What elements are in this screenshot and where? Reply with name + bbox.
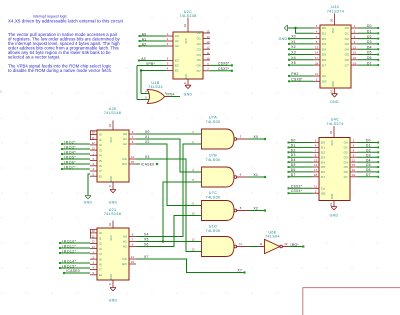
wire net X1 from U20 A1 to U7B pin 4 xyxy=(136,139,196,172)
decoder U2C right pin stubs xyxy=(203,32,210,34)
svg-text:14: 14 xyxy=(315,51,318,55)
svg-text:18: 18 xyxy=(314,173,317,177)
label X4 to U3C xyxy=(288,59,290,61)
svg-text:A1: A1 xyxy=(175,39,179,43)
svg-text:O4: O4 xyxy=(344,160,348,164)
svg-text:D7: D7 xyxy=(366,173,371,177)
sheet outline corner xyxy=(303,288,400,315)
label D7 to U4C xyxy=(288,176,290,178)
wire net X4 from U21 A0 to U7A pin 2 xyxy=(136,144,196,237)
svg-text:12: 12 xyxy=(192,237,195,241)
svg-text:ICASE0: ICASE0 xyxy=(141,162,155,166)
svg-text:X4: X4 xyxy=(144,232,149,236)
svg-text:D5: D5 xyxy=(321,165,325,169)
wire D2 input of U4C xyxy=(290,151,313,153)
svg-text:11: 11 xyxy=(314,185,317,189)
svg-text:X0: X0 xyxy=(254,135,259,139)
nand-gate U7C body xyxy=(202,201,235,221)
encoder U21 VCC pin 16 stub xyxy=(112,221,114,229)
wire E1 net vertical to OR gate input xyxy=(140,71,142,94)
svg-text:D0: D0 xyxy=(367,24,372,28)
svg-text:GND: GND xyxy=(84,200,93,204)
svg-text:5: 5 xyxy=(192,178,194,182)
nand-gate U7C input wires into body xyxy=(196,205,202,207)
svg-text:14: 14 xyxy=(131,255,134,259)
wire D6 output of U3C xyxy=(358,59,377,61)
wire output O7 CSX7* xyxy=(210,70,231,72)
ground symbol for U4C xyxy=(331,207,337,210)
svg-text:15: 15 xyxy=(131,160,134,164)
svg-text:8: 8 xyxy=(108,185,112,187)
svg-text:GND: GND xyxy=(330,213,339,217)
svg-text:O0: O0 xyxy=(345,26,349,30)
wire D6 input of U4C xyxy=(290,171,313,173)
encoder U21 GND pin 8 xyxy=(112,280,114,288)
wire X1 from U7B output xyxy=(249,176,265,178)
svg-text:11: 11 xyxy=(207,51,210,55)
svg-text:2: 2 xyxy=(192,140,194,144)
svg-text:I4: I4 xyxy=(99,252,102,256)
svg-text:15: 15 xyxy=(207,29,210,33)
svg-text:CSX4*: CSX4* xyxy=(291,189,303,193)
svg-text:GND: GND xyxy=(109,200,118,204)
svg-text:O2: O2 xyxy=(344,151,348,155)
svg-text:D7: D7 xyxy=(367,61,372,65)
nand-gate U7A output pin stub xyxy=(237,138,249,140)
encoder U20 body xyxy=(97,130,129,182)
svg-text:CSX6*: CSX6* xyxy=(291,77,303,81)
junction on E1 net xyxy=(140,69,142,71)
svg-text:I4: I4 xyxy=(99,154,102,158)
svg-text:CSX6*: CSX6* xyxy=(218,62,230,66)
wire IRQ15* xyxy=(61,267,90,269)
svg-text:O7: O7 xyxy=(344,175,348,179)
svg-text:PH2: PH2 xyxy=(291,72,298,76)
wire D1 input of U4C xyxy=(290,146,313,148)
wire D1 output of U4C xyxy=(357,146,377,148)
svg-text:D0: D0 xyxy=(366,139,371,143)
label IRQ4* input xyxy=(61,153,63,155)
svg-text:D1: D1 xyxy=(366,144,371,148)
svg-text:VCC: VCC xyxy=(110,137,113,142)
wire ICASE0 from U20 EO xyxy=(136,163,140,165)
ground symbol tying U3C D0 D1 low xyxy=(284,25,287,31)
svg-text:74LS00: 74LS00 xyxy=(206,229,221,233)
wire X4 xyxy=(290,59,314,61)
svg-text:X1: X1 xyxy=(254,173,259,177)
wire D3 output of U4C xyxy=(357,156,377,158)
label D1 to U4C xyxy=(288,146,290,148)
svg-text:X2: X2 xyxy=(254,207,259,211)
svg-text:D0: D0 xyxy=(322,26,326,30)
svg-text:I1: I1 xyxy=(99,138,102,142)
wire X0 xyxy=(290,38,314,40)
wire X1 xyxy=(290,43,314,45)
svg-text:2: 2 xyxy=(353,139,355,143)
label IRQ5* input xyxy=(61,158,63,160)
svg-text:E3: E3 xyxy=(175,59,179,63)
svg-text:I7: I7 xyxy=(99,169,102,173)
note: VPB4 paragraph xyxy=(8,64,112,74)
label IRQ6* input xyxy=(61,163,63,165)
wire IRQ4* xyxy=(63,153,90,155)
svg-text:D6: D6 xyxy=(322,58,326,62)
decoder U2C GND pin 8 xyxy=(187,79,189,85)
label IRQ3* input xyxy=(61,148,63,150)
wire D0 output of U3C xyxy=(358,27,377,29)
svg-text:O3: O3 xyxy=(345,42,349,46)
nand-gate U7B output pin stub xyxy=(237,176,249,178)
svg-text:O2: O2 xyxy=(197,42,201,46)
wire D1 to ground xyxy=(296,28,314,33)
svg-text:IRQ*: IRQ* xyxy=(291,243,300,247)
svg-text:A2: A2 xyxy=(123,245,127,249)
svg-text:11: 11 xyxy=(239,242,242,246)
svg-text:D2: D2 xyxy=(367,35,372,39)
svg-text:D7: D7 xyxy=(322,63,326,67)
svg-text:Cp: Cp xyxy=(321,187,325,191)
wire IRQ5* xyxy=(63,158,90,160)
decoder U2C left pin stubs xyxy=(166,35,173,37)
svg-text:19: 19 xyxy=(352,173,355,177)
wire X5 xyxy=(290,64,314,66)
svg-text:D2: D2 xyxy=(291,148,296,152)
svg-text:D0: D0 xyxy=(321,141,325,145)
svg-text:CSX7*: CSX7* xyxy=(218,67,230,71)
label PH2 clock xyxy=(288,75,290,77)
svg-text:8: 8 xyxy=(183,82,187,84)
svg-text:10: 10 xyxy=(192,211,195,215)
svg-text:13: 13 xyxy=(207,40,210,44)
svg-text:12: 12 xyxy=(92,240,95,244)
svg-text:1: 1 xyxy=(315,189,317,193)
svg-text:D5: D5 xyxy=(291,163,296,167)
decoder U2C VCC pin 16 stub xyxy=(187,18,189,32)
svg-text:D6: D6 xyxy=(291,168,296,172)
nand-gate U1D output pin stub xyxy=(237,246,249,248)
svg-text:X4,X5 driven by addressable la: X4,X5 driven by addressable latch extern… xyxy=(8,18,124,23)
svg-text:D4: D4 xyxy=(367,45,372,49)
label IRQ12* input xyxy=(59,252,61,254)
svg-text:O7: O7 xyxy=(345,63,349,67)
encoder U20 unused inputs I0 I1 tie xyxy=(90,131,97,140)
svg-text:D1: D1 xyxy=(321,146,325,150)
svg-text:VCC: VCC xyxy=(331,140,334,145)
wire D0 output of U4C xyxy=(357,142,377,144)
junction on X5 net xyxy=(162,240,164,242)
svg-text:X5: X5 xyxy=(144,237,149,241)
svg-text:D4: D4 xyxy=(321,160,325,164)
svg-text:10: 10 xyxy=(284,242,287,246)
wire D7 input of U4C xyxy=(290,176,313,178)
svg-text:X5: X5 xyxy=(291,61,296,65)
wire A2 xyxy=(141,45,167,47)
ground symbol for U21 xyxy=(110,288,116,291)
svg-text:6: 6 xyxy=(132,140,134,144)
svg-text:E1: E1 xyxy=(175,69,179,73)
svg-text:12: 12 xyxy=(353,45,356,49)
label CSX2* clock xyxy=(288,187,290,189)
svg-text:I3: I3 xyxy=(99,148,102,152)
svg-text:D5: D5 xyxy=(367,51,372,55)
svg-text:O6: O6 xyxy=(344,170,348,174)
svg-text:74LS00: 74LS00 xyxy=(206,120,221,124)
wire ICASE0 to EI xyxy=(65,272,90,274)
svg-text:O1: O1 xyxy=(345,32,349,36)
svg-text:15: 15 xyxy=(353,51,356,55)
label X1 at U7B output xyxy=(264,176,266,178)
nand-gate U1D input wires into body xyxy=(196,241,202,243)
label X0 at U7A output xyxy=(264,138,266,140)
wire net X6 from U21 A2 to U7C pin 10 xyxy=(136,216,196,247)
or-gate U1B body xyxy=(147,90,164,104)
svg-text:I0: I0 xyxy=(99,133,102,137)
svg-text:13: 13 xyxy=(92,146,95,150)
svg-text:14: 14 xyxy=(314,163,317,167)
svg-text:O5: O5 xyxy=(345,53,349,57)
svg-text:8: 8 xyxy=(108,283,112,285)
svg-text:20: 20 xyxy=(329,131,333,134)
svg-text:4: 4 xyxy=(92,167,94,171)
wire IRQ2* xyxy=(63,143,90,145)
svg-text:O5: O5 xyxy=(197,58,201,62)
svg-text:selected as a vector target.: selected as a vector target. xyxy=(8,55,61,60)
svg-text:74LS04: 74LS04 xyxy=(265,235,280,239)
svg-text:X0: X0 xyxy=(291,35,296,39)
svg-text:I2: I2 xyxy=(99,242,102,246)
wire D2 output of U4C xyxy=(357,151,377,153)
label X5 to U3C xyxy=(288,64,290,66)
label X3 to U3C xyxy=(288,54,290,56)
svg-text:3: 3 xyxy=(240,135,242,139)
svg-text:X3: X3 xyxy=(291,51,296,55)
svg-text:7: 7 xyxy=(132,238,134,242)
ground symbol for U20 EI xyxy=(85,196,91,199)
register U3C GND pin 10 xyxy=(334,88,336,94)
wire D2 output of U3C xyxy=(358,38,377,40)
svg-text:ICASE0: ICASE0 xyxy=(66,269,80,273)
svg-text:10: 10 xyxy=(329,203,333,206)
wire net X2 from U20 A2 to U7C pin 9 xyxy=(136,144,196,206)
nand-gate U7B input wires into body xyxy=(196,171,202,173)
wire IRQ14* xyxy=(61,262,90,264)
nand-gate U1D body xyxy=(202,237,235,257)
svg-text:12: 12 xyxy=(92,141,95,145)
wire D4 input of U4C xyxy=(290,161,313,163)
svg-text:D2: D2 xyxy=(321,151,325,155)
label A1 input xyxy=(139,40,141,42)
register U3C left pin stubs xyxy=(314,27,321,29)
wire D5 output of U3C xyxy=(358,54,377,56)
label D2 to U4C xyxy=(288,151,290,153)
svg-text:13: 13 xyxy=(192,247,195,251)
svg-text:74LS00: 74LS00 xyxy=(206,195,221,199)
svg-text:I5: I5 xyxy=(99,159,102,163)
svg-text:E2: E2 xyxy=(175,64,179,68)
wire D0 to ground xyxy=(288,27,314,29)
svg-text:D6: D6 xyxy=(366,168,371,172)
encoder U20 right pin stubs xyxy=(129,133,136,135)
svg-text:74LS148: 74LS148 xyxy=(104,111,121,115)
svg-text:19: 19 xyxy=(353,61,356,65)
svg-text:7: 7 xyxy=(132,135,134,139)
svg-text:18: 18 xyxy=(315,61,318,65)
wire IRQ11* xyxy=(61,247,90,249)
svg-text:GND: GND xyxy=(185,74,188,80)
wire IRQ7* xyxy=(63,168,90,170)
svg-text:A0: A0 xyxy=(175,34,179,38)
wire CSX4* xyxy=(290,192,313,194)
label A2 input xyxy=(139,45,141,47)
label IRQ2* input xyxy=(61,143,63,145)
svg-text:A0: A0 xyxy=(123,132,127,136)
encoder U20 left pin stubs xyxy=(90,133,97,135)
svg-text:GND: GND xyxy=(279,37,288,41)
svg-text:2: 2 xyxy=(92,157,94,161)
svg-text:D3: D3 xyxy=(291,153,296,157)
svg-text:13: 13 xyxy=(314,158,317,162)
stray faint mark at left edge xyxy=(0,90,2,92)
svg-text:9: 9 xyxy=(192,201,194,205)
svg-text:1: 1 xyxy=(192,130,194,134)
svg-text:X0: X0 xyxy=(145,130,150,134)
wire CSX6* xyxy=(290,80,314,82)
svg-text:8: 8 xyxy=(240,206,242,210)
label X2 to U3C xyxy=(288,48,290,50)
wire D3 output of U3C xyxy=(358,43,377,45)
svg-text:X1: X1 xyxy=(145,135,150,139)
svg-text:13: 13 xyxy=(92,245,95,249)
wire IRQ10* xyxy=(61,242,90,244)
svg-text:16: 16 xyxy=(183,24,187,27)
wire net X5 from U21 A1 to U1D pin 12 xyxy=(136,241,196,243)
svg-text:74LS138: 74LS138 xyxy=(179,14,196,18)
svg-text:11: 11 xyxy=(315,72,318,76)
svg-text:O3: O3 xyxy=(344,155,348,159)
svg-text:74LS148: 74LS148 xyxy=(104,212,121,216)
encoder U20 VCC pin 16 stub xyxy=(112,121,114,131)
wire D3 input of U4C xyxy=(290,156,313,158)
wire X5 branch to U7B pin 5 xyxy=(163,182,196,242)
svg-text:74LS00: 74LS00 xyxy=(206,158,221,162)
svg-text:16: 16 xyxy=(108,223,112,226)
svg-text:17: 17 xyxy=(314,168,317,172)
label X2 at U7C output xyxy=(264,209,266,211)
decoder U2C 74LS138 body xyxy=(173,32,203,79)
wire D4 output of U4C xyxy=(357,161,377,163)
wire D4 output of U3C xyxy=(358,48,377,50)
wire EI to ground xyxy=(88,174,90,196)
svg-text:GS: GS xyxy=(122,257,127,261)
encoder U21 right pin stubs xyxy=(129,236,136,238)
svg-text:D0: D0 xyxy=(291,139,296,143)
svg-text:13: 13 xyxy=(315,45,318,49)
wire D5 input of U4C xyxy=(290,166,313,168)
svg-text:O6: O6 xyxy=(345,58,349,62)
wire D5 output of U4C xyxy=(357,166,377,168)
svg-text:GND: GND xyxy=(110,176,113,182)
svg-text:OE: OE xyxy=(321,191,326,195)
svg-text:D4: D4 xyxy=(322,47,326,51)
wire output O6 CSX6* xyxy=(210,64,231,66)
inverter U6E output wire IRQ* xyxy=(282,246,288,248)
wire X2 from U7C output xyxy=(249,210,265,212)
nand-gate U7A body xyxy=(202,129,235,149)
svg-text:7: 7 xyxy=(315,149,317,153)
junction on ground net xyxy=(294,27,296,29)
svg-text:2: 2 xyxy=(92,255,94,259)
label ICASE0 to EI xyxy=(63,272,65,274)
wire E1 net xyxy=(141,70,166,72)
svg-text:A1: A1 xyxy=(123,240,127,244)
svg-text:VCC: VCC xyxy=(110,235,113,240)
svg-text:14: 14 xyxy=(131,155,134,159)
svg-text:6: 6 xyxy=(132,243,134,247)
svg-text:O0: O0 xyxy=(344,141,348,145)
register U3C VCC pin 20 stub xyxy=(334,14,336,26)
svg-text:O2: O2 xyxy=(345,37,349,41)
svg-text:1: 1 xyxy=(92,152,94,156)
nand-gate U7A input wires into body xyxy=(196,133,202,135)
svg-text:16: 16 xyxy=(108,124,112,127)
svg-text:D4: D4 xyxy=(291,158,296,162)
wire A0 xyxy=(141,35,167,37)
label D6 to U4C xyxy=(288,171,290,173)
register U3C body xyxy=(320,25,351,88)
svg-text:6: 6 xyxy=(353,149,355,153)
svg-text:GND: GND xyxy=(331,194,334,200)
encoder U21 body xyxy=(97,228,129,280)
svg-text:11: 11 xyxy=(92,234,95,238)
svg-text:I6: I6 xyxy=(99,164,102,168)
inverter U6E body xyxy=(265,239,280,253)
wire PH2 xyxy=(290,75,314,77)
svg-text:9: 9 xyxy=(132,130,134,134)
wire E2 net vertical to OR gate input xyxy=(136,66,138,100)
wire net X7 from U21 GS xyxy=(136,259,244,273)
svg-text:74LS374: 74LS374 xyxy=(326,122,343,126)
wire X0 from U7A output xyxy=(249,138,265,140)
svg-text:O5: O5 xyxy=(344,165,348,169)
svg-text:GND: GND xyxy=(184,93,193,97)
wire X3 xyxy=(290,54,314,56)
svg-text:O7: O7 xyxy=(197,69,201,73)
label IRQ11* input xyxy=(59,247,61,249)
svg-text:EI: EI xyxy=(99,273,102,277)
svg-text:EO: EO xyxy=(122,162,127,166)
note: title text xyxy=(8,14,124,23)
wire D7 output of U3C xyxy=(358,64,377,66)
wire D1 output of U3C xyxy=(358,32,377,34)
svg-text:X4: X4 xyxy=(291,56,296,60)
svg-text:I6: I6 xyxy=(99,263,102,267)
wire E2 net xyxy=(137,65,166,67)
svg-text:1: 1 xyxy=(92,250,94,254)
register U4C right pin stubs xyxy=(350,142,357,144)
encoder U21 left pin stubs xyxy=(90,232,97,234)
svg-text:D4: D4 xyxy=(366,158,371,162)
svg-text:X3: X3 xyxy=(145,155,150,159)
svg-text:VCC: VCC xyxy=(332,28,335,33)
svg-text:GS: GS xyxy=(122,157,127,161)
svg-text:VPB4: VPB4 xyxy=(166,93,175,97)
svg-text:O4: O4 xyxy=(345,47,349,51)
svg-text:D3: D3 xyxy=(322,42,326,46)
svg-text:17: 17 xyxy=(315,56,318,60)
wire IRQ12* xyxy=(61,252,90,254)
svg-text:74LS374: 74LS374 xyxy=(327,9,344,13)
svg-text:16: 16 xyxy=(353,56,356,60)
